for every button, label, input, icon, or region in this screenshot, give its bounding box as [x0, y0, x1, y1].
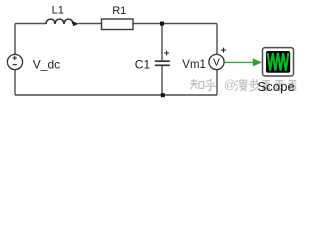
svg-text:V: V — [213, 58, 220, 69]
svg-text:L1: L1 — [52, 4, 64, 16]
svg-text:Vm1: Vm1 — [182, 59, 206, 71]
svg-text:R1: R1 — [112, 5, 126, 17]
svg-text:@: @ — [224, 78, 236, 92]
svg-text:C1: C1 — [135, 57, 151, 71]
svg-text:V_dc: V_dc — [33, 58, 60, 72]
svg-text:Scope: Scope — [257, 79, 294, 94]
